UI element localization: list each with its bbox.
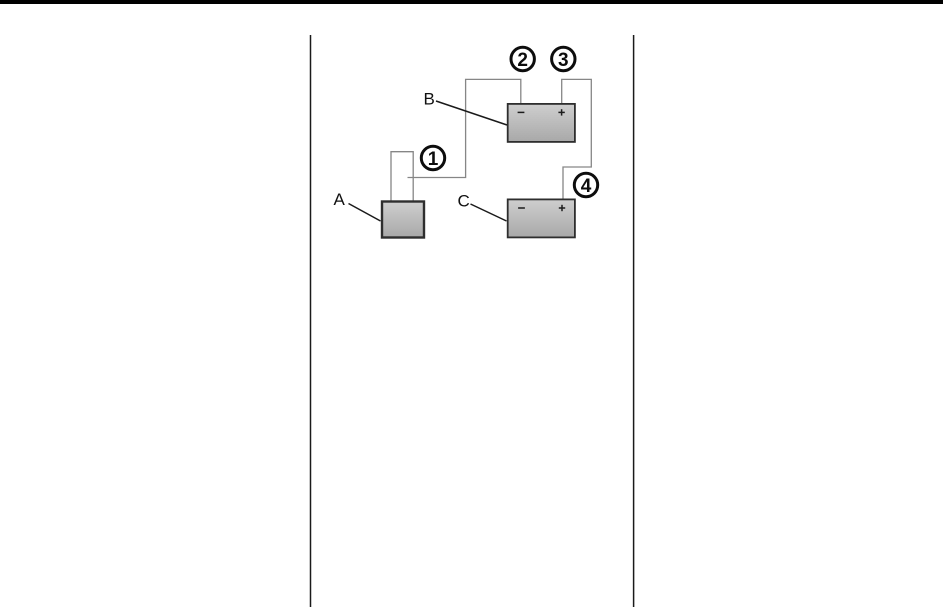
svg-text:C: C [458, 192, 470, 211]
battery C positive terminal label [559, 205, 565, 211]
wire: open loop rising from top of component A [391, 152, 413, 201]
callout circle 1 [421, 146, 444, 170]
svg-text:1: 1 [428, 149, 439, 170]
label A with leader line [334, 190, 381, 221]
callout circle 2 [511, 47, 534, 71]
battery C negative terminal label [518, 207, 525, 209]
label B with leader line [424, 89, 508, 125]
component A [382, 202, 424, 238]
wire: from component A loop to battery B negative terminal [408, 79, 521, 177]
battery B [508, 104, 575, 142]
battery B positive terminal label [558, 109, 564, 115]
callout circle 3 [552, 47, 575, 71]
callout circle 4 [574, 173, 597, 197]
battery C [508, 199, 575, 237]
svg-text:2: 2 [517, 50, 528, 71]
svg-text:B: B [424, 89, 435, 108]
wire: from battery B positive terminal to battery C positive terminal [562, 79, 592, 198]
svg-text:A: A [334, 190, 346, 209]
battery B negative terminal label [518, 111, 525, 113]
svg-text:4: 4 [581, 176, 592, 197]
svg-text:3: 3 [558, 50, 569, 71]
label C with leader line [458, 192, 507, 222]
